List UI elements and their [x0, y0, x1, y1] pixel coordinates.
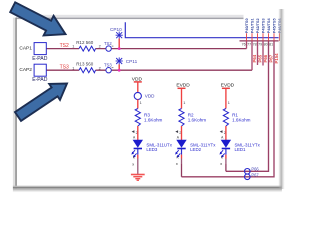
- wire blue bus L: [125, 22, 278, 37]
- svg-text:x: x: [220, 162, 222, 166]
- svg-text:80: 80: [264, 42, 268, 46]
- test point TS3: [104, 63, 113, 73]
- page left border: [13, 18, 15, 189]
- wire net TS3 row: [46, 41, 252, 70]
- svg-text:1: 1: [72, 66, 74, 70]
- svg-text:P44/TS4: P44/TS4: [267, 18, 271, 34]
- svg-text:CP11: CP11: [126, 59, 138, 64]
- LED1 SML-311YTx: [220, 140, 261, 172]
- test point TS2: [104, 41, 113, 51]
- svg-text:R13 560: R13 560: [76, 62, 94, 67]
- wire net P67 (LED2): [182, 41, 275, 177]
- svg-text:x: x: [132, 162, 134, 166]
- svg-text:A: A: [133, 136, 136, 140]
- resistor R3 1.6Kohm: [132, 99, 163, 140]
- svg-text:1: 1: [183, 101, 185, 105]
- svg-text:CP10: CP10: [110, 27, 122, 32]
- svg-text:A: A: [177, 136, 180, 140]
- svg-text:TS2: TS2: [104, 41, 112, 46]
- svg-text:81: 81: [269, 42, 273, 46]
- svg-text:1: 1: [72, 45, 74, 49]
- port P67: [245, 172, 260, 179]
- svg-text:P66: P66: [263, 54, 268, 62]
- power port VDD circle: [134, 92, 155, 99]
- svg-text:x: x: [176, 162, 178, 166]
- svg-text:P40/TS0: P40/TS0: [245, 18, 249, 33]
- ground (GND): [131, 175, 145, 181]
- svg-text:P66: P66: [251, 167, 259, 172]
- svg-text:TS3: TS3: [104, 63, 112, 68]
- LED pin marks A/K: [133, 136, 224, 160]
- svg-text:TS3: TS3: [60, 65, 69, 71]
- wire maroon top rail: [240, 40, 279, 42]
- svg-text:LED3: LED3: [146, 147, 158, 152]
- junction node TS3/CP11: [118, 69, 121, 72]
- resistor R12 560: [72, 40, 101, 51]
- resistor R13 560: [72, 62, 101, 73]
- svg-text:1.6Kohm: 1.6Kohm: [188, 118, 207, 123]
- svg-text:P41/TS1: P41/TS1: [251, 18, 255, 33]
- net stub TS7: [262, 41, 264, 66]
- svg-text:TS2: TS2: [60, 43, 69, 49]
- svg-text:CAP2: CAP2: [19, 67, 32, 73]
- svg-text:E-PAD: E-PAD: [32, 77, 48, 83]
- svg-text:P65: P65: [257, 54, 262, 62]
- power symbol EVDD (col2): [176, 82, 190, 108]
- callout arrow 2: [15, 84, 67, 121]
- port P66: [245, 167, 260, 175]
- svg-text:LED2: LED2: [190, 147, 202, 152]
- svg-text:1.6Kohm: 1.6Kohm: [144, 118, 163, 123]
- resistor R2 1.6Kohm: [175, 101, 206, 140]
- svg-text:LED1: LED1: [235, 147, 247, 152]
- wire net TS2 row: [46, 41, 246, 49]
- svg-text:77: 77: [247, 42, 251, 46]
- wire net P66 (LED1): [226, 41, 269, 171]
- svg-text:CAP1: CAP1: [19, 46, 32, 52]
- svg-text:P67: P67: [268, 54, 273, 62]
- junction node TS2/CP10: [118, 47, 121, 50]
- net stub TS6: [257, 41, 259, 65]
- LED3 SML-311UTx: [131, 140, 172, 175]
- svg-text:EVDD: EVDD: [221, 82, 235, 88]
- svg-text:78: 78: [253, 42, 257, 46]
- callout arrow 1: [10, 2, 65, 35]
- svg-text:2: 2: [99, 66, 101, 70]
- power symbol EVDD (col3): [221, 82, 235, 108]
- svg-text:R12 560: R12 560: [76, 40, 94, 45]
- svg-text:2: 2: [99, 45, 101, 49]
- capacitive pad CAP2: [19, 64, 47, 83]
- svg-text:76: 76: [242, 42, 246, 46]
- capacitive pad CAP1: [19, 43, 47, 63]
- svg-text:1.6Kohm: 1.6Kohm: [232, 118, 251, 123]
- svg-text:79: 79: [258, 42, 262, 46]
- resistor R1 1.6Kohm: [220, 101, 251, 140]
- capacitor CP10: [110, 27, 123, 49]
- svg-text:P42/TS2: P42/TS2: [256, 18, 260, 33]
- MCU pin stubs (red ticks): [247, 33, 280, 41]
- svg-text:E-PAD: E-PAD: [32, 56, 48, 62]
- svg-text:1: 1: [228, 101, 230, 105]
- svg-text:P64: P64: [252, 54, 257, 62]
- svg-text:VDD: VDD: [145, 94, 155, 99]
- page top border: [16, 15, 244, 18]
- svg-text:A: A: [221, 136, 224, 140]
- capacitor CP11: [116, 57, 138, 70]
- svg-text:1: 1: [140, 101, 142, 105]
- svg-text:P67: P67: [251, 172, 259, 177]
- LED2 SML-311YTx: [175, 140, 216, 177]
- svg-text:EVDD: EVDD: [176, 82, 190, 88]
- svg-text:P154: P154: [274, 53, 279, 64]
- page bottom border: [13, 186, 282, 187]
- power symbol VDD (col1): [132, 76, 143, 92]
- svg-text:P45/TS5: P45/TS5: [273, 18, 277, 33]
- svg-text:P43/TS3: P43/TS3: [262, 18, 266, 33]
